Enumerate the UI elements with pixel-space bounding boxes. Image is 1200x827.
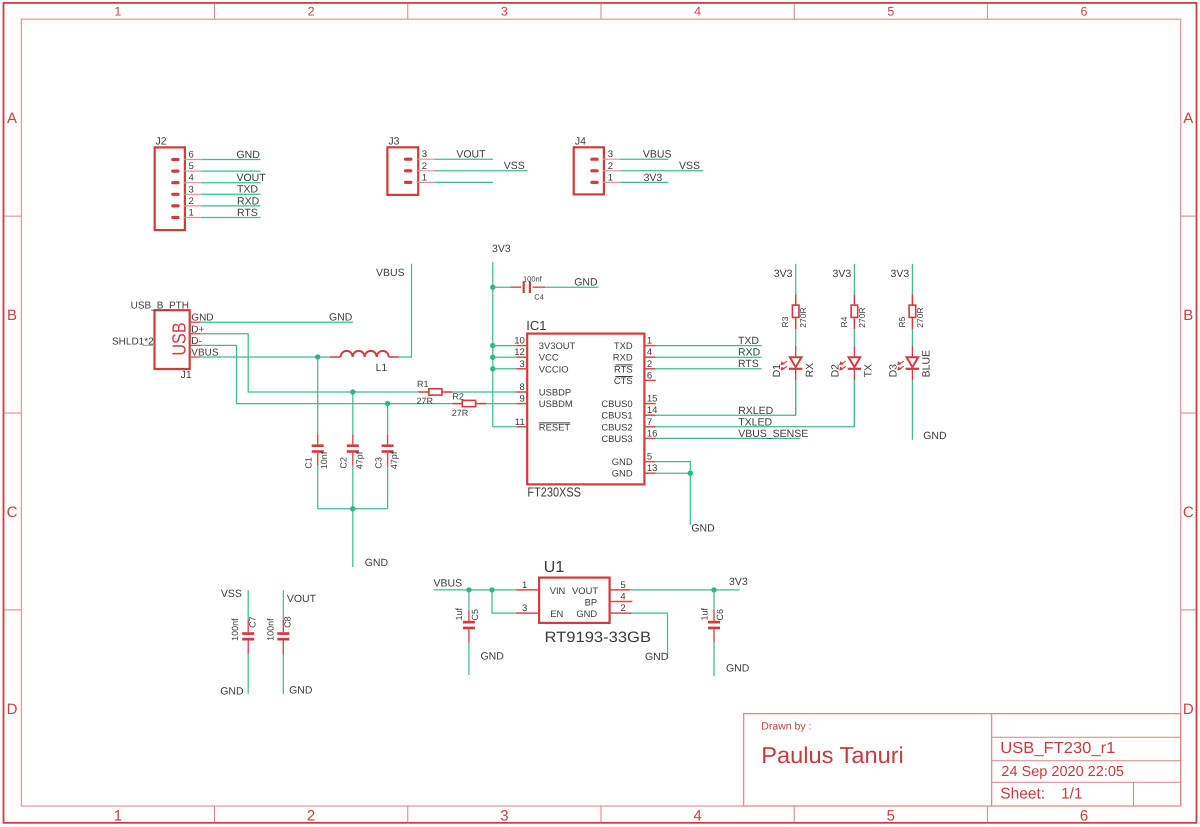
IC1 pin 2 stub (644, 368, 655, 370)
connector J1 USB_B_PTH (155, 310, 190, 369)
wire 3V3 to R3 (795, 264, 797, 295)
svg-text:VBUS: VBUS (376, 267, 405, 279)
svg-text:Paulus Tanuri: Paulus Tanuri (761, 742, 904, 768)
svg-text:5: 5 (647, 452, 652, 463)
svg-text:1uf: 1uf (699, 607, 709, 620)
U1 pin 4 stub (610, 601, 633, 603)
svg-text:1/1: 1/1 (1061, 786, 1083, 803)
LED D3 (911, 346, 913, 357)
J1 pin D- stub (190, 344, 201, 346)
svg-text:GND: GND (923, 430, 947, 442)
svg-text:47pf: 47pf (389, 451, 399, 469)
capacitor C7 100nf (247, 620, 249, 632)
wire RXD (656, 356, 762, 358)
svg-text:VSS: VSS (679, 160, 700, 172)
svg-text:11: 11 (515, 417, 525, 428)
capacitor C8 100nf (282, 620, 284, 632)
connector J3 (387, 147, 418, 195)
svg-text:5: 5 (887, 808, 895, 825)
svg-text:VBUS: VBUS (643, 149, 672, 161)
IC1 pin 1 stub (644, 345, 655, 347)
junction 3V3-C6 (711, 587, 716, 592)
svg-text:10nf: 10nf (319, 451, 329, 469)
U1 pin 5 stub (610, 589, 630, 591)
svg-text:1: 1 (608, 172, 613, 183)
svg-text:GND: GND (645, 651, 669, 663)
svg-text:27R: 27R (417, 396, 434, 406)
wire C7 to GND (247, 654, 249, 694)
IC1 pin 8 stub (516, 391, 527, 393)
svg-text:RXD: RXD (738, 347, 761, 359)
svg-text:12: 12 (514, 347, 525, 358)
J2 pin 3 stub (184, 193, 201, 195)
junction GND bus (350, 506, 355, 511)
capacitor C5 1uf (468, 610, 470, 621)
wire C5 top (468, 590, 470, 610)
svg-text:TXLED: TXLED (738, 416, 772, 428)
wire R4 to D2 (853, 329, 855, 346)
IC1 pin 10 stub (516, 345, 527, 347)
J3 pin 2 stub (417, 170, 435, 172)
connector J4 (574, 147, 604, 194)
wire TXD (656, 345, 762, 347)
svg-text:J3: J3 (388, 135, 399, 147)
svg-text:B: B (7, 307, 17, 324)
wire J3 pin1 (434, 181, 493, 183)
wire VBUS to C1 (317, 357, 319, 435)
wire D3 cathode down (911, 380, 913, 440)
IC1 pin 9 stub (516, 403, 527, 405)
junction VBUS-EN (489, 587, 494, 592)
wire USB D- to R2 row (201, 345, 453, 403)
svg-text:13: 13 (647, 463, 658, 474)
svg-text:CBUS3: CBUS3 (601, 433, 632, 444)
svg-text:IC1: IC1 (526, 318, 546, 333)
svg-text:270R: 270R (857, 307, 867, 327)
svg-text:C8: C8 (283, 616, 293, 628)
wire J3 VOUT (434, 158, 493, 160)
svg-text:270R: 270R (798, 307, 808, 327)
svg-text:2: 2 (308, 4, 315, 18)
svg-text:R5: R5 (897, 316, 907, 327)
svg-text:3: 3 (189, 184, 194, 195)
svg-text:27R: 27R (452, 408, 469, 418)
svg-text:TX: TX (863, 364, 875, 377)
wire 3V3 to pin12 (493, 356, 517, 358)
title block (744, 714, 1181, 806)
svg-text:15: 15 (647, 394, 658, 405)
svg-text:A: A (7, 110, 17, 127)
svg-text:6: 6 (1080, 808, 1088, 825)
svg-text:2: 2 (647, 359, 652, 370)
svg-text:6: 6 (1081, 4, 1088, 18)
svg-text:CBUS0: CBUS0 (601, 398, 632, 409)
junction VBUS-C1 (315, 354, 320, 359)
wire VBUS L1 to label (399, 264, 412, 357)
wire 3V3 to pin10 (493, 345, 517, 347)
svg-text:4: 4 (189, 173, 194, 184)
svg-text:8: 8 (520, 382, 525, 393)
svg-text:VOUT: VOUT (237, 172, 267, 184)
svg-text:3: 3 (522, 603, 527, 614)
svg-text:3: 3 (500, 808, 508, 825)
wire VBUS from J1 to L1 (201, 356, 330, 358)
U1 pin 3 stub (516, 612, 539, 614)
J4 pin 2 pad (590, 169, 598, 172)
svg-text:3V3: 3V3 (492, 243, 511, 255)
svg-text:GND: GND (612, 456, 633, 467)
resistor R3 270R (795, 294, 797, 305)
wire C5 to GND (468, 643, 470, 675)
wire R2 to IC pin9 (486, 403, 516, 405)
inductor L1 (330, 356, 341, 358)
wire 3V3 to C4 (493, 286, 510, 288)
wire J2 TXD (201, 193, 261, 195)
svg-text:CBUS1: CBUS1 (601, 410, 632, 421)
wire J2 RXD (201, 205, 261, 207)
svg-text:A: A (1183, 110, 1193, 127)
svg-text:1: 1 (647, 336, 652, 347)
wire C4 to GND (545, 286, 598, 288)
J3 pin 3 stub (417, 158, 435, 160)
wire R5 to D3 (911, 329, 913, 346)
J1 pin GND stub (190, 321, 201, 323)
svg-text:2: 2 (620, 603, 625, 614)
wire J2 RTS (201, 217, 261, 219)
svg-text:RX: RX (804, 363, 816, 378)
svg-text:GND: GND (481, 651, 505, 663)
wire J4 VSS (620, 170, 703, 172)
svg-text:GND: GND (691, 523, 715, 535)
svg-text:3V3: 3V3 (833, 268, 852, 280)
svg-text:C7: C7 (248, 616, 258, 628)
junction VBUS-C5 (466, 587, 471, 592)
svg-text:100nf: 100nf (230, 618, 240, 641)
wire C3 top (387, 404, 389, 435)
J3 pin 1 pad (404, 181, 412, 184)
svg-text:USB_B_PTH: USB_B_PTH (131, 301, 189, 312)
svg-text:2: 2 (189, 196, 194, 207)
capacitor C2 47pf (352, 435, 354, 445)
svg-text:VCCIO: VCCIO (539, 363, 569, 374)
wire J3 VSS (434, 170, 527, 172)
svg-text:1: 1 (422, 172, 427, 183)
IC1 pin 14 stub (644, 414, 655, 416)
IC1 pin 5 stub (644, 461, 655, 463)
svg-text:GND: GND (329, 312, 353, 324)
J2 pin 4 pad (171, 181, 179, 184)
wire J2 GND (201, 159, 261, 161)
J4 pin 3 stub (603, 158, 620, 160)
IC1 pin 3 stub (516, 368, 527, 370)
svg-text:D: D (7, 701, 18, 718)
J2 pin 1 stub (184, 217, 201, 219)
junction 3V3-pin10 (490, 343, 495, 348)
IC1 pin 7 stub (644, 426, 655, 428)
svg-text:D: D (1183, 701, 1194, 718)
IC1 pin 11 stub (516, 426, 527, 428)
svg-text:GND: GND (574, 277, 598, 289)
J2 pin 2 pad (171, 204, 179, 207)
wire IC GND down (689, 473, 691, 524)
svg-text:GND: GND (365, 557, 389, 569)
svg-text:BLUE: BLUE (921, 350, 933, 377)
svg-text:3: 3 (608, 149, 613, 160)
capacitor C6 1uf (713, 610, 715, 621)
resistor R1 27R (418, 391, 429, 393)
svg-text:VCC: VCC (539, 352, 559, 363)
IC1 RESET overline (539, 422, 570, 424)
svg-text:C1: C1 (304, 457, 314, 469)
wire J4 3V3 (620, 181, 668, 183)
svg-text:1: 1 (189, 208, 194, 219)
wire C7 top (247, 590, 249, 620)
J2 pin 5 stub (184, 170, 201, 172)
frame column ticks (214, 4, 216, 19)
J4 pin 2 stub (603, 170, 620, 172)
svg-text:TXD: TXD (738, 335, 759, 347)
IC1 pin 13 stub (644, 472, 655, 474)
svg-text:1: 1 (114, 4, 121, 18)
wire GND bus down (352, 509, 354, 567)
wire VBUS_SENSE (656, 437, 801, 439)
wire C2 to GND bus (352, 465, 354, 508)
svg-text:2: 2 (608, 161, 613, 172)
svg-text:TXD: TXD (237, 184, 258, 196)
svg-text:14: 14 (647, 405, 658, 416)
junction R1-C2 (350, 389, 355, 394)
svg-text:C3: C3 (373, 457, 383, 469)
connector J2 (155, 147, 185, 230)
svg-text:4: 4 (693, 808, 701, 825)
svg-text:Drawn by :: Drawn by : (761, 721, 811, 733)
resistor R2 27R (452, 403, 462, 405)
wire EN branch (492, 590, 516, 613)
svg-text:24 Sep 2020 22:05: 24 Sep 2020 22:05 (1001, 764, 1124, 780)
svg-text:GND: GND (726, 663, 750, 675)
svg-text:VOUT: VOUT (572, 585, 598, 596)
svg-text:R2: R2 (452, 392, 464, 402)
IC1 pin 4 stub (644, 356, 655, 358)
svg-text:5: 5 (620, 580, 625, 591)
svg-text:1uf: 1uf (454, 607, 464, 620)
wire TXLED (656, 380, 855, 427)
IC1 pin 15 stub (644, 403, 655, 405)
svg-text:4: 4 (647, 347, 652, 358)
wire 3V3 to R5 (911, 264, 913, 295)
svg-text:3V3: 3V3 (729, 576, 748, 588)
IC1 pin 6 stub (644, 379, 655, 381)
J3 pin 3 pad (404, 158, 412, 161)
junction 3V3-pin12 (490, 355, 495, 360)
svg-text:3V3: 3V3 (891, 268, 910, 280)
svg-text:3: 3 (422, 149, 427, 160)
U1 pin 2 stub (610, 612, 632, 614)
svg-text:VBUS_SENSE: VBUS_SENSE (738, 428, 808, 440)
junction IC GND (688, 471, 693, 476)
svg-text:RTS: RTS (237, 207, 258, 219)
svg-text:D1: D1 (771, 364, 783, 378)
svg-text:GND: GND (576, 608, 597, 619)
J2 pin 4 stub (184, 182, 201, 184)
wire J2 VOUT (201, 182, 261, 184)
junction R2-C3 (385, 401, 390, 406)
wire R1 to IC pin8 (452, 391, 516, 393)
svg-text:3V3: 3V3 (774, 268, 793, 280)
svg-text:10: 10 (514, 336, 525, 347)
IC1 RTS overline (616, 364, 633, 366)
svg-text:R4: R4 (839, 316, 849, 327)
svg-text:VSS: VSS (504, 160, 525, 172)
svg-text:RXD: RXD (613, 352, 633, 363)
svg-text:GND: GND (237, 149, 261, 161)
svg-text:USB_FT230_r1: USB_FT230_r1 (1000, 740, 1115, 757)
svg-text:C: C (1183, 504, 1194, 521)
svg-text:6: 6 (189, 150, 194, 161)
svg-text:5: 5 (887, 4, 894, 18)
svg-text:TXD: TXD (614, 340, 633, 351)
J2 pin 6 pad (171, 158, 179, 161)
svg-text:GND: GND (220, 685, 244, 697)
wire C6 top (713, 590, 715, 610)
svg-text:100nf: 100nf (523, 274, 543, 283)
svg-text:6: 6 (647, 370, 652, 381)
svg-text:5: 5 (189, 161, 194, 172)
svg-text:C: C (7, 504, 18, 521)
IC U1 FT230XSS box (527, 334, 644, 485)
J2 pin 2 stub (184, 205, 201, 207)
svg-text:J4: J4 (575, 135, 586, 147)
svg-text:2: 2 (307, 808, 315, 825)
junction 3V3-pin3 (490, 366, 495, 371)
IC1 pin 12 stub (516, 356, 527, 358)
wire USB D+ to R1 row (201, 334, 419, 392)
wire J2 pin5 (201, 170, 261, 172)
svg-text:VBUS: VBUS (434, 577, 463, 589)
resistor R4 270R (853, 294, 855, 305)
wire 3V3 rail vertical (492, 262, 494, 427)
svg-text:4: 4 (620, 592, 625, 603)
svg-text:GND: GND (289, 684, 313, 696)
wire IC GND pin13 (656, 472, 691, 474)
wire C2 top (352, 392, 354, 435)
capacitor C3 47pf (387, 435, 389, 445)
resistor R5 270R (911, 294, 913, 305)
wire U1 GND (632, 613, 668, 658)
IC1 pin 16 stub (644, 437, 655, 439)
svg-text:FT230XSS: FT230XSS (527, 485, 581, 500)
svg-text:B: B (1183, 307, 1193, 324)
svg-text:VIN: VIN (550, 585, 566, 596)
svg-text:Sheet:: Sheet: (1000, 786, 1045, 803)
wire RTS (656, 368, 762, 370)
J3 pin 1 stub (417, 181, 435, 183)
svg-text:VSS: VSS (221, 588, 242, 600)
svg-text:USBDM: USBDM (539, 398, 573, 409)
U1 pin 1 stub (516, 589, 539, 591)
svg-text:R1: R1 (417, 379, 429, 389)
svg-text:RTS: RTS (738, 358, 759, 370)
wire U1 VOUT 3V3 (630, 589, 740, 591)
frame row ticks (4, 215, 21, 217)
wire C8 top (282, 590, 284, 620)
svg-text:USB: USB (169, 322, 190, 355)
LED D1 (795, 346, 797, 357)
svg-text:J1: J1 (181, 369, 192, 381)
wire J4 VBUS (620, 158, 668, 160)
LED D2 (853, 346, 855, 357)
wire VBUS to U1 (434, 589, 517, 591)
svg-text:270R: 270R (915, 307, 925, 327)
svg-text:CBUS2: CBUS2 (601, 421, 632, 432)
svg-text:3: 3 (501, 4, 508, 18)
svg-text:RT9193-33GB: RT9193-33GB (545, 629, 652, 646)
svg-text:J2: J2 (156, 135, 167, 147)
svg-text:R3: R3 (780, 316, 790, 327)
svg-text:C4: C4 (534, 293, 544, 302)
capacitor C1 10nf (317, 435, 319, 445)
J4 pin 1 stub (603, 181, 620, 183)
J1 pin VBUS stub (190, 356, 201, 358)
svg-text:C6: C6 (715, 609, 725, 621)
wire D1 cathode down (795, 380, 797, 415)
J2 pin 3 pad (171, 193, 179, 196)
svg-text:U1: U1 (544, 559, 565, 576)
svg-text:1: 1 (522, 580, 527, 591)
wire C8 to GND (282, 654, 284, 694)
svg-text:2: 2 (422, 161, 427, 172)
svg-text:1: 1 (114, 808, 122, 825)
wire 3V3 to RESET (493, 426, 517, 428)
wire 3V3 to R4 (853, 264, 855, 295)
J2 pin 1 pad (171, 216, 179, 219)
svg-text:3: 3 (520, 359, 525, 370)
svg-text:RXLED: RXLED (738, 405, 773, 417)
svg-text:16: 16 (647, 428, 658, 439)
svg-text:L1: L1 (376, 362, 388, 374)
J2 pin 5 pad (171, 170, 179, 173)
J1 pin D+ stub (190, 333, 201, 335)
wire GND from J1 (201, 321, 353, 323)
svg-text:4: 4 (694, 4, 701, 18)
svg-text:VOUT: VOUT (456, 149, 486, 161)
svg-text:7: 7 (647, 417, 652, 428)
wire 3V3 to pin3 (493, 368, 517, 370)
svg-text:RXD: RXD (237, 195, 260, 207)
svg-text:D3: D3 (888, 364, 900, 378)
svg-text:100nf: 100nf (265, 618, 275, 641)
wire R3 to D1 (795, 329, 797, 346)
wire D2 cathode down (853, 380, 855, 427)
wire C3 to GND bus (387, 465, 389, 508)
svg-text:D-: D- (191, 336, 202, 347)
wire C6 to GND (713, 643, 715, 676)
IC1 CTS overline (615, 376, 632, 378)
svg-text:USBDP: USBDP (539, 387, 571, 398)
J2 pin 6 stub (184, 159, 201, 161)
junction 3V3-C4 (490, 285, 495, 290)
svg-text:C5: C5 (470, 609, 480, 621)
svg-text:3V3OUT: 3V3OUT (539, 340, 576, 351)
J4 pin 3 pad (590, 158, 598, 161)
svg-text:GND: GND (612, 468, 633, 479)
regulator U1 box (539, 578, 610, 623)
svg-text:47pf: 47pf (354, 451, 364, 469)
svg-text:VOUT: VOUT (287, 593, 317, 605)
svg-text:EN: EN (550, 608, 563, 619)
capacitor C4 (510, 286, 521, 288)
svg-text:BP: BP (585, 597, 598, 608)
